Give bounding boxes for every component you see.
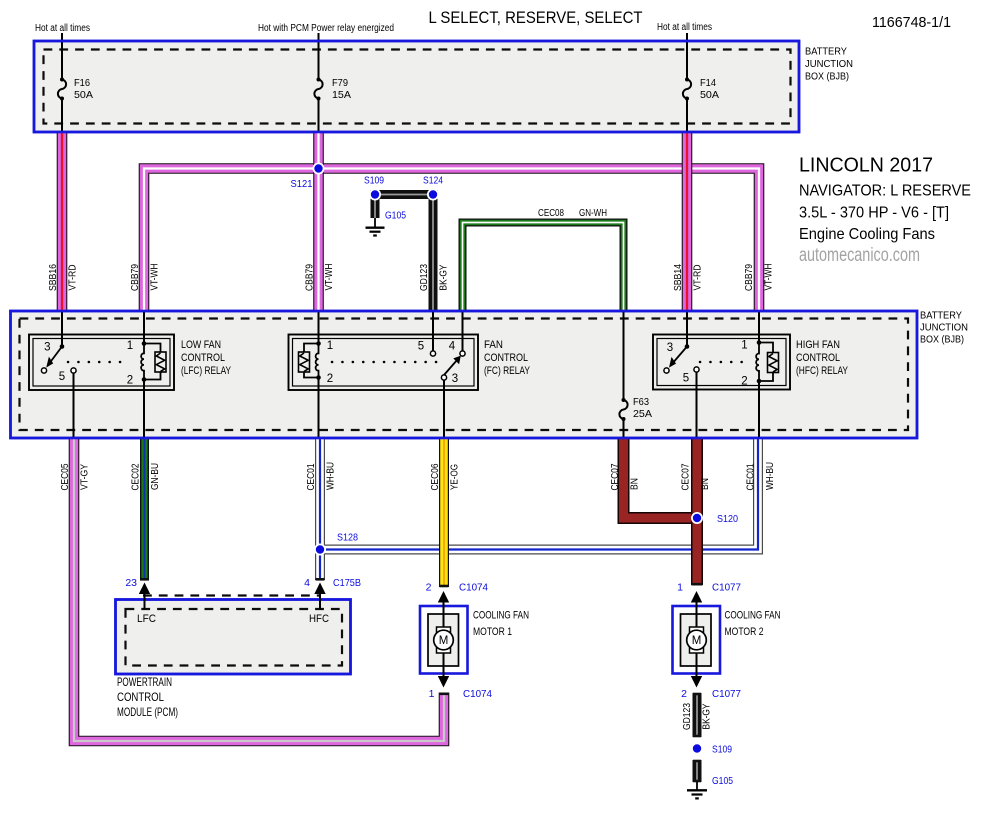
svg-text:FAN: FAN xyxy=(484,339,503,351)
HFC coil xyxy=(756,343,759,382)
splice S124 xyxy=(423,175,443,201)
svg-text:S109: S109 xyxy=(364,175,384,187)
HFC pin 5 xyxy=(694,367,699,372)
svg-text:1: 1 xyxy=(429,688,435,700)
svg-text:VT-GY: VT-GY xyxy=(80,464,91,490)
svg-text:GD123: GD123 xyxy=(419,264,430,291)
battery junction box (BJB) top xyxy=(34,41,799,132)
svg-text:5: 5 xyxy=(683,373,689,385)
svg-text:G105: G105 xyxy=(385,210,406,222)
svg-text:1: 1 xyxy=(677,582,683,594)
svg-text:C1077: C1077 xyxy=(712,582,741,594)
relay U1 LFC low fan control relay xyxy=(29,311,231,438)
fuse F16 50A xyxy=(58,77,93,101)
connector arrow PCM pin 4 C175B xyxy=(304,577,361,609)
svg-text:MOTOR 1: MOTOR 1 xyxy=(473,626,512,638)
svg-text:(HFC) RELAY: (HFC) RELAY xyxy=(796,365,849,377)
ground G105 bottom xyxy=(687,782,707,798)
svg-text:CEC07: CEC07 xyxy=(610,463,621,490)
wire CEC08 GN-WH from FC relay pin 4 to fuse F63 xyxy=(463,223,624,312)
svg-text:M: M xyxy=(439,635,449,647)
svg-text:BK-GY: BK-GY xyxy=(438,264,449,290)
svg-text:LFC: LFC xyxy=(137,613,156,625)
svg-text:HFC: HFC xyxy=(309,613,329,625)
wire BK-GY splice S109 to ground G105 xyxy=(696,760,698,782)
HFC switch blade xyxy=(672,347,688,365)
wire hot feed stub F14 xyxy=(686,33,688,132)
wire SBB14 VT-RD from fuse F14 to HFC relay pin 3 xyxy=(686,131,688,312)
splice S120 xyxy=(691,512,738,525)
label BJB middle right xyxy=(920,310,968,346)
svg-text:Engine Cooling Fans: Engine Cooling Fans xyxy=(799,226,935,243)
svg-text:1: 1 xyxy=(127,340,133,352)
FC pin 2 xyxy=(316,375,321,380)
cooling fan motor 2 box xyxy=(673,596,721,679)
wire CEC01 WH-BU vertical from FC relay pin 2 through S128 to PCM pin 4 xyxy=(319,438,321,581)
HFC pin 3 feed line xyxy=(686,311,688,347)
svg-text:3: 3 xyxy=(452,373,458,385)
svg-text:CEC06: CEC06 xyxy=(430,463,441,490)
connector arrow motor 1 pin 1 C1074 xyxy=(429,676,492,700)
svg-text:G105: G105 xyxy=(712,775,733,787)
svg-text:MOTOR 2: MOTOR 2 xyxy=(725,626,764,638)
svg-text:50A: 50A xyxy=(74,89,93,101)
wire GD123 BK-GY motor 2 pin 2 to splice S109 xyxy=(696,693,698,737)
splice S109 top xyxy=(364,175,384,201)
svg-text:BOX (BJB): BOX (BJB) xyxy=(805,71,849,83)
svg-text:CONTROL: CONTROL xyxy=(484,352,528,364)
svg-text:VT-RD: VT-RD xyxy=(68,265,79,291)
svg-text:VT-WH: VT-WH xyxy=(324,264,335,291)
svg-text:2: 2 xyxy=(327,373,333,385)
svg-text:C1074: C1074 xyxy=(459,582,488,594)
relay U2 FC fan control relay xyxy=(289,311,531,438)
wire hot feed stub F16 xyxy=(61,33,63,132)
svg-text:WH-BU: WH-BU xyxy=(326,462,337,490)
svg-text:1166748-1/1: 1166748-1/1 xyxy=(872,14,951,31)
svg-text:automecanico.com: automecanico.com xyxy=(799,245,920,266)
svg-text:M: M xyxy=(692,635,702,647)
wire CBB79 VT-WH vertical from fuse F79 through S121 to FC relay pin 1 xyxy=(318,131,320,312)
FC coil xyxy=(316,344,319,378)
svg-text:LINCOLN 2017: LINCOLN 2017 xyxy=(799,155,933,177)
svg-text:CONTROL: CONTROL xyxy=(117,690,164,704)
connector arrow PCM pin 23 xyxy=(125,577,150,609)
LFC linkage dotted xyxy=(68,361,130,364)
wire CEC02 GN-BU from LFC relay pin 2 to PCM pin 23 xyxy=(144,438,146,581)
wire CEC07 BN from fuse F63 to splice S120 xyxy=(624,438,695,519)
HFC linkage dotted xyxy=(700,361,742,364)
FC pin 3 xyxy=(441,375,446,380)
svg-text:3: 3 xyxy=(667,342,673,354)
svg-text:GN-WH: GN-WH xyxy=(579,208,607,219)
svg-text:MODULE (PCM): MODULE (PCM) xyxy=(117,705,178,719)
svg-text:CEC01: CEC01 xyxy=(746,463,757,490)
svg-text:CEC05: CEC05 xyxy=(60,463,71,490)
FC coil resistor xyxy=(304,344,319,378)
label cooling fan motor 2 xyxy=(725,610,781,639)
svg-text:S124: S124 xyxy=(423,175,443,187)
rotated wire labels top group xyxy=(48,264,774,292)
svg-text:HIGH FAN: HIGH FAN xyxy=(796,339,840,351)
wire CBB79 VT-WH horizontal run with left and right drops xyxy=(144,169,759,312)
LFC pin 2 xyxy=(142,377,147,382)
relay U3 HFC high fan control relay xyxy=(653,311,849,438)
battery junction box (BJB) middle xyxy=(11,311,918,438)
svg-text:2: 2 xyxy=(741,376,747,388)
HFC pin 2 xyxy=(757,379,762,384)
svg-text:VT-WH: VT-WH xyxy=(764,264,775,291)
svg-text:5: 5 xyxy=(59,371,65,383)
wire hot feed stub F79 xyxy=(318,33,320,132)
wire SBB16 VT-RD from fuse F16 to LFC relay pin 3 xyxy=(61,131,63,312)
svg-text:Hot at all times: Hot at all times xyxy=(35,23,90,34)
svg-text:Hot at all times: Hot at all times xyxy=(657,22,712,33)
svg-text:BN: BN xyxy=(700,478,711,490)
fuse F14 50A xyxy=(683,77,719,101)
svg-text:NAVIGATOR: L RESERVE: NAVIGATOR: L RESERVE xyxy=(799,183,971,200)
wire end caps xyxy=(140,579,703,781)
wire CEC07 BN from HFC relay pin 5 through S120 to motor 2 pin 1 xyxy=(696,438,698,586)
FC switch blade xyxy=(444,360,458,376)
svg-text:SBB16: SBB16 xyxy=(48,264,59,291)
HFC coil resistor xyxy=(759,343,773,382)
FC pin 1 xyxy=(318,311,320,344)
svg-text:C1074: C1074 xyxy=(463,688,492,700)
FC pin 5 xyxy=(432,311,434,351)
LFC coil resistor xyxy=(144,344,161,380)
svg-text:BATTERY: BATTERY xyxy=(920,310,962,322)
LFC coil xyxy=(141,344,144,380)
LFC switch blade xyxy=(49,347,63,365)
svg-text:BK-GY: BK-GY xyxy=(702,703,713,729)
svg-text:3.5L - 370 HP - V6 - [T]: 3.5L - 370 HP - V6 - [T] xyxy=(799,205,949,222)
cooling fan motor 1 box xyxy=(420,596,468,679)
LFC pin 3 feed line xyxy=(61,311,63,347)
motor M1 symbol xyxy=(437,627,451,633)
svg-text:S120: S120 xyxy=(717,513,738,525)
svg-text:4: 4 xyxy=(449,341,456,353)
svg-text:C175B: C175B xyxy=(333,577,361,589)
motor M2 symbol xyxy=(690,627,704,633)
ground G105 top xyxy=(366,218,385,236)
svg-text:50A: 50A xyxy=(700,89,719,101)
connector arrow motor 2 pin 1 C1077 xyxy=(677,582,741,603)
LFC pin 1 xyxy=(143,311,145,344)
svg-text:BOX (BJB): BOX (BJB) xyxy=(920,334,964,346)
title block xyxy=(799,155,971,267)
svg-text:23: 23 xyxy=(125,577,137,589)
connector arrow motor 2 pin 2 C1077 xyxy=(681,676,741,700)
svg-text:BN: BN xyxy=(630,478,641,490)
svg-text:COOLING FAN: COOLING FAN xyxy=(473,610,529,622)
label cooling fan motor 1 xyxy=(473,610,529,639)
svg-text:S121: S121 xyxy=(291,178,313,190)
powertrain control module (PCM) box xyxy=(116,596,351,675)
wire GN-WH feed inside BJB to fuse F63 xyxy=(623,311,625,438)
splice S109 bottom xyxy=(691,743,732,756)
svg-text:S109: S109 xyxy=(712,744,732,756)
wire CEC06 YE-OG from FC relay pin 3 to motor 1 pin 2 xyxy=(443,438,445,588)
svg-text:GD123: GD123 xyxy=(682,703,693,730)
svg-text:C1077: C1077 xyxy=(712,688,741,700)
FC linkage dotted xyxy=(332,361,440,364)
svg-text:YE-OG: YE-OG xyxy=(450,464,461,490)
svg-text:F79: F79 xyxy=(332,77,348,89)
svg-text:LOW FAN: LOW FAN xyxy=(181,339,221,351)
svg-text:CEC08: CEC08 xyxy=(538,208,564,219)
svg-text:CEC01: CEC01 xyxy=(306,463,317,490)
rotated wire labels below middle BJB xyxy=(60,462,776,730)
wire GD123 BK-GY splice S109 to S124 to FC relay pin 5 xyxy=(375,195,433,312)
svg-text:POWERTRAIN: POWERTRAIN xyxy=(117,675,172,689)
svg-text:CBB79: CBB79 xyxy=(305,264,316,291)
svg-text:VT-RD: VT-RD xyxy=(693,265,704,291)
fuse F63 25A xyxy=(619,396,652,421)
svg-text:COOLING FAN: COOLING FAN xyxy=(725,610,781,622)
svg-text:WH-BU: WH-BU xyxy=(765,462,776,490)
border re-strokes so wires tuck under box borders xyxy=(11,41,918,674)
label CEC08 GN-WH xyxy=(538,208,607,219)
svg-text:CONTROL: CONTROL xyxy=(796,352,840,364)
svg-text:4: 4 xyxy=(304,577,310,589)
svg-text:5: 5 xyxy=(418,341,424,353)
svg-text:JUNCTION: JUNCTION xyxy=(805,58,853,70)
svg-text:(FC) RELAY: (FC) RELAY xyxy=(484,365,530,377)
svg-text:S128: S128 xyxy=(337,532,358,544)
label PCM xyxy=(117,675,178,719)
svg-text:CEC02: CEC02 xyxy=(131,463,142,490)
svg-text:15A: 15A xyxy=(332,89,351,101)
connector arrow motor 1 pin 2 C1074 xyxy=(426,582,488,603)
svg-text:CEC07: CEC07 xyxy=(681,463,692,490)
svg-text:Hot with PCM Power relay energ: Hot with PCM Power relay energized xyxy=(258,23,394,34)
svg-text:2: 2 xyxy=(127,375,133,387)
svg-text:GN-BU: GN-BU xyxy=(150,463,161,490)
svg-text:1: 1 xyxy=(741,340,747,352)
svg-text:CBB79: CBB79 xyxy=(130,264,141,291)
svg-text:F14: F14 xyxy=(700,77,716,89)
LFC pin 5 xyxy=(71,368,76,373)
fuse F79 15A xyxy=(314,77,351,101)
svg-text:F63: F63 xyxy=(633,396,649,408)
svg-text:VT-WH: VT-WH xyxy=(150,264,161,291)
svg-text:JUNCTION: JUNCTION xyxy=(920,322,968,334)
svg-text:CBB79: CBB79 xyxy=(744,264,755,291)
wire CEC01 WH-BU horizontal from HFC relay pin 2 to splice S128 xyxy=(322,438,758,550)
HFC pin 1 xyxy=(758,311,760,343)
splice S121 xyxy=(291,163,325,191)
svg-text:SBB14: SBB14 xyxy=(673,264,684,291)
splice S128 xyxy=(314,532,358,556)
wire CEC05 VT-GY from LFC relay pin 5 down and across to motor 1 pin 1 xyxy=(74,438,444,742)
label BJB top right xyxy=(805,46,853,83)
FC pin 4 xyxy=(462,311,464,351)
svg-text:BATTERY: BATTERY xyxy=(805,46,847,58)
svg-text:F16: F16 xyxy=(74,77,90,89)
svg-text:CONTROL: CONTROL xyxy=(181,352,225,364)
svg-text:1: 1 xyxy=(327,340,333,352)
svg-text:2: 2 xyxy=(681,688,687,700)
svg-text:L SELECT, RESERVE, SELECT: L SELECT, RESERVE, SELECT xyxy=(429,9,643,27)
svg-text:25A: 25A xyxy=(633,408,652,420)
svg-text:(LFC) RELAY: (LFC) RELAY xyxy=(181,365,231,377)
svg-text:3: 3 xyxy=(44,342,50,354)
svg-text:2: 2 xyxy=(426,582,432,594)
